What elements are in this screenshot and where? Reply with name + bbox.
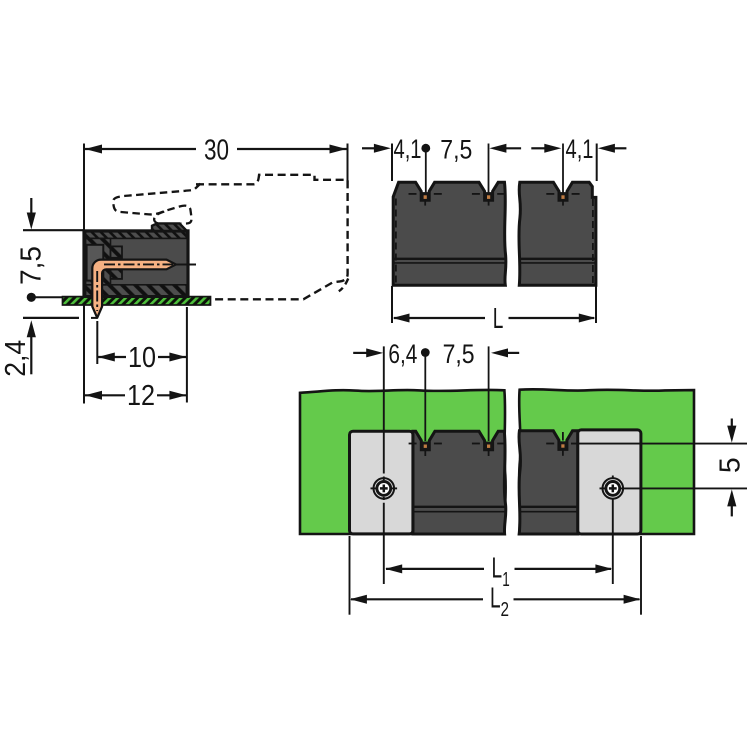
dimension 12 arrows bbox=[85, 391, 102, 400]
screw left centerline vertical bbox=[383, 346, 385, 473]
pin 3 in notch (top view) bbox=[559, 192, 567, 200]
dim 7,5 dot at pcb level bbox=[27, 293, 36, 302]
extension line right of dim 30 (x=347.5) bbox=[347, 144, 349, 183]
top view double line upper bbox=[393, 258, 505, 260]
dimension 12 line bbox=[85, 394, 125, 396]
svg-text:30: 30 bbox=[204, 135, 229, 167]
green pcb right piece bbox=[519, 389, 694, 534]
screw right centerline vertical bbox=[612, 476, 614, 480]
svg-text:6,4: 6,4 bbox=[388, 339, 417, 369]
dimension 30 line bbox=[85, 148, 196, 150]
ext line right 4,1 (x=596.7) bbox=[596, 144, 598, 182]
bottom view body left piece bbox=[413, 431, 506, 534]
ext line left 4,1 (x=392) bbox=[391, 144, 393, 182]
svg-text:12: 12 bbox=[127, 380, 155, 412]
connector body side view: outer block (cavity fill) bbox=[84, 231, 188, 297]
dim 7,5 reference line top (body top level) bbox=[23, 229, 84, 231]
top view double line lower bbox=[393, 262, 505, 264]
dimension 30 arrow right bbox=[330, 145, 347, 154]
dim 12 extension line right (x=186.9) bbox=[186, 307, 188, 403]
svg-text:L: L bbox=[490, 583, 501, 615]
dimension 10 line bbox=[98, 356, 126, 358]
dim 5 down arrow bbox=[731, 419, 733, 428]
dim L1 line bbox=[386, 568, 484, 570]
dot on dim line (pin1 center, bottom view) bbox=[421, 348, 430, 357]
dimension L arrows bbox=[393, 314, 410, 323]
dim 5 up arrow bbox=[727, 489, 736, 506]
dimension 10 arrows bbox=[98, 353, 115, 362]
dim L2 extension lines bbox=[349, 536, 351, 615]
screw right symbol bbox=[600, 478, 624, 499]
pin centerline vertical (dash-dot) bbox=[96, 271, 98, 311]
top view block 2 (right) bbox=[519, 182, 596, 285]
extension line left of dim 30 (x=84) bbox=[83, 144, 85, 404]
drop line from dot to pin1 bbox=[425, 151, 427, 193]
bottom view body right piece bbox=[519, 431, 578, 534]
dim 7,5 bottom arrow bbox=[491, 348, 508, 357]
pin axis line extending right of tip bbox=[176, 263, 196, 265]
body top hatched band bbox=[86, 232, 187, 239]
body raised tab top-right bbox=[152, 223, 187, 231]
pin centerline horizontal (dash-dot) bbox=[104, 263, 173, 265]
body left hatched column bbox=[86, 238, 111, 284]
dim 2,4 arrow up bbox=[27, 320, 36, 337]
mating plug dashed small hook bottom-right bbox=[339, 279, 348, 292]
dim 2,4 tick at pin tip bbox=[91, 317, 98, 319]
ext line 7,5 bottom right (x=488.6) bbox=[488, 346, 490, 441]
mounting flange right bbox=[578, 430, 641, 534]
pin 3 bottom view bbox=[559, 441, 567, 449]
svg-text:4,1: 4,1 bbox=[566, 134, 594, 164]
body bottom hatched band bbox=[86, 285, 187, 296]
pin 2 bottom view bbox=[485, 442, 493, 450]
svg-text:10: 10 bbox=[128, 342, 156, 374]
dim 7,5 reference line at pcb level bbox=[31, 296, 64, 298]
pcb cross-section (green hatched strip) bbox=[63, 297, 211, 305]
svg-text:4,1: 4,1 bbox=[394, 134, 422, 164]
dot on dim line (pin1 center) bbox=[421, 144, 430, 153]
ext line 7,5 right (x=488.5) down into notch2 bbox=[488, 144, 490, 193]
dim L2 line bbox=[351, 598, 483, 600]
dim L1 arrows bbox=[385, 564, 402, 573]
pin 1 in notch (top view) bbox=[421, 192, 429, 200]
green pcb left piece bbox=[300, 390, 506, 534]
dim 7,5 (vertical, left) arrow down bbox=[30, 198, 32, 214]
ext line notch3 center (x=563) bbox=[562, 144, 564, 193]
dim 6,4 arrow and line bbox=[353, 352, 367, 354]
svg-text:7,5: 7,5 bbox=[440, 135, 472, 165]
dim 2,4 reference line at pin tip level bbox=[23, 317, 79, 319]
dim 4,1 left arrow bbox=[362, 147, 375, 149]
body wall step above pin bbox=[111, 246, 123, 257]
mating plug dashed latch lever loop bbox=[113, 184, 200, 225]
pin 2 in notch (top view) bbox=[485, 192, 493, 200]
svg-text:5: 5 bbox=[715, 457, 747, 473]
svg-text:1: 1 bbox=[502, 569, 510, 591]
dim 4,1 right arrow bbox=[598, 144, 615, 153]
dim L2 arrows bbox=[350, 595, 367, 604]
bottom view double line lower bbox=[413, 511, 505, 513]
svg-text:7,5: 7,5 bbox=[16, 246, 48, 285]
dim 5 reference line at screw level bbox=[621, 487, 747, 489]
mating plug dashed outline (main body) bbox=[196, 175, 348, 299]
bottom view double line upper bbox=[413, 506, 505, 508]
drop line from dot to pin1 bottom view bbox=[424, 356, 426, 442]
top view block 1 (left) bbox=[393, 182, 506, 285]
dim 5 reference line at pin level bbox=[571, 443, 747, 445]
body pocket (flat gray) inside left column bbox=[87, 245, 104, 281]
svg-text:2,4: 2,4 bbox=[0, 340, 32, 377]
svg-text:L: L bbox=[493, 303, 504, 335]
screw left symbol bbox=[371, 478, 398, 499]
svg-text:L: L bbox=[492, 552, 503, 584]
body wall step below pin bbox=[111, 269, 123, 279]
block2 hidden edge (dashed) bbox=[592, 199, 594, 284]
block1 hidden edge (dashed) bbox=[395, 199, 397, 284]
mounting flange left bbox=[350, 431, 413, 534]
pin 1 bottom view bbox=[421, 442, 429, 450]
solder pin (copper, side view) bbox=[92, 260, 176, 318]
arrows pair between 7,5 and right 4,1 bbox=[489, 144, 506, 153]
dimension L line bbox=[394, 317, 485, 319]
svg-text:7,5: 7,5 bbox=[443, 339, 475, 369]
svg-text:2: 2 bbox=[501, 599, 510, 621]
dim 10 extension line (pin center x=97.3) bbox=[96, 321, 98, 364]
dimension 30 arrow left bbox=[85, 145, 102, 154]
